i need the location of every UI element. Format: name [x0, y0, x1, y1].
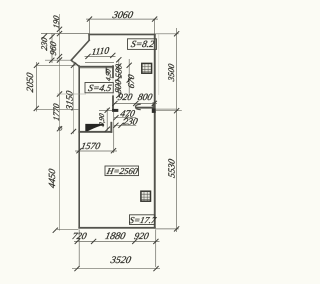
svg-text:4,90: 4,90: [105, 68, 112, 82]
svg-text:1570: 1570: [80, 141, 101, 152]
pier left end arc cap: [135, 104, 140, 109]
wall stub below door: [110, 122, 112, 133]
vent shaft square upper: [142, 63, 152, 73]
svg-text:S=8.2: S=8.2: [130, 39, 156, 50]
window sill line above S=4.5 top wall: [85, 61, 114, 63]
wall right: [154, 34, 156, 229]
wall pier 800: [136, 107, 155, 109]
dim chain A (580/800): [118, 59, 120, 97]
svg-text:920: 920: [133, 231, 150, 242]
wall top (outer): [88, 34, 155, 36]
wall chamfer diagonal: [71, 40, 90, 67]
wall chamfer stub vertical at top-left corner: [88, 34, 90, 40]
svg-text:3150: 3150: [64, 90, 75, 112]
left dim line L0c (2050): [36, 62, 78, 112]
sill line right section: [156, 108, 177, 110]
svg-text:0,90: 0,90: [97, 112, 106, 127]
svg-text:4450: 4450: [47, 168, 58, 189]
wall bottom: [78, 227, 155, 229]
dim chain B (670): [128, 59, 130, 96]
line inner face of S=4.5 top wall: [80, 67, 112, 69]
left dim line L0b (960 / 230): [41, 33, 90, 63]
dim line 3060: [86, 19, 158, 33]
stove black block: [85, 124, 103, 131]
svg-text:3520: 3520: [109, 255, 132, 266]
left dim line L1: [59, 14, 61, 231]
right dim chain 3500 / 5530: [156, 28, 182, 232]
svg-text:1880: 1880: [104, 231, 126, 242]
svg-text:3500: 3500: [166, 62, 176, 83]
svg-text:S=4.5: S=4.5: [87, 83, 113, 94]
svg-text:1110: 1110: [91, 45, 110, 58]
dim lines 470 / 230 with extensions: [99, 108, 136, 153]
svg-text:1770: 1770: [51, 102, 61, 122]
dim line 1110: [85, 55, 116, 57]
dim line 920/800: [113, 102, 157, 104]
svg-text:H=2560: H=2560: [105, 166, 139, 176]
svg-text:5530: 5530: [167, 158, 177, 179]
svg-text:720: 720: [71, 231, 88, 242]
svg-text:670: 670: [126, 73, 136, 89]
label box S=4.5: [85, 83, 113, 94]
dim line 1570: [75, 150, 117, 152]
bottom dim chain 720/1880/920: [56, 229, 160, 267]
svg-text:230: 230: [122, 116, 139, 127]
svg-text:S=17.7: S=17.7: [129, 215, 158, 225]
label box S=8.2: [128, 39, 157, 50]
vent shaft square lower: [141, 191, 151, 201]
node circle on L1: [59, 127, 62, 130]
svg-text:960: 960: [48, 40, 58, 56]
svg-text:920: 920: [117, 92, 134, 103]
pier right end stub up: [153, 102, 155, 107]
label box H=2560: [105, 166, 139, 176]
window jamb stub on S=4.5 top wall: [106, 67, 108, 73]
wall left: [78, 65, 80, 228]
black blob at pier junction with right wall: [152, 109, 156, 113]
svg-text:2050: 2050: [25, 72, 36, 94]
ext line y=94: [57, 93, 86, 95]
dim line 3520: [72, 268, 160, 270]
wall S=4.5 bottom: [78, 131, 112, 133]
faint artifact line right of wall: [158, 34, 160, 95]
left dim line L2 (3150): [73, 61, 75, 134]
label box S=17.7: [129, 215, 158, 225]
wall end black cap at door jamb: [112, 109, 118, 112]
wall S=4.5 right: [112, 65, 114, 78]
wall S=4.5 top: [78, 66, 114, 68]
svg-text:3060: 3060: [111, 10, 134, 21]
svg-text:580: 580: [113, 63, 123, 79]
svg-text:800: 800: [137, 92, 154, 103]
